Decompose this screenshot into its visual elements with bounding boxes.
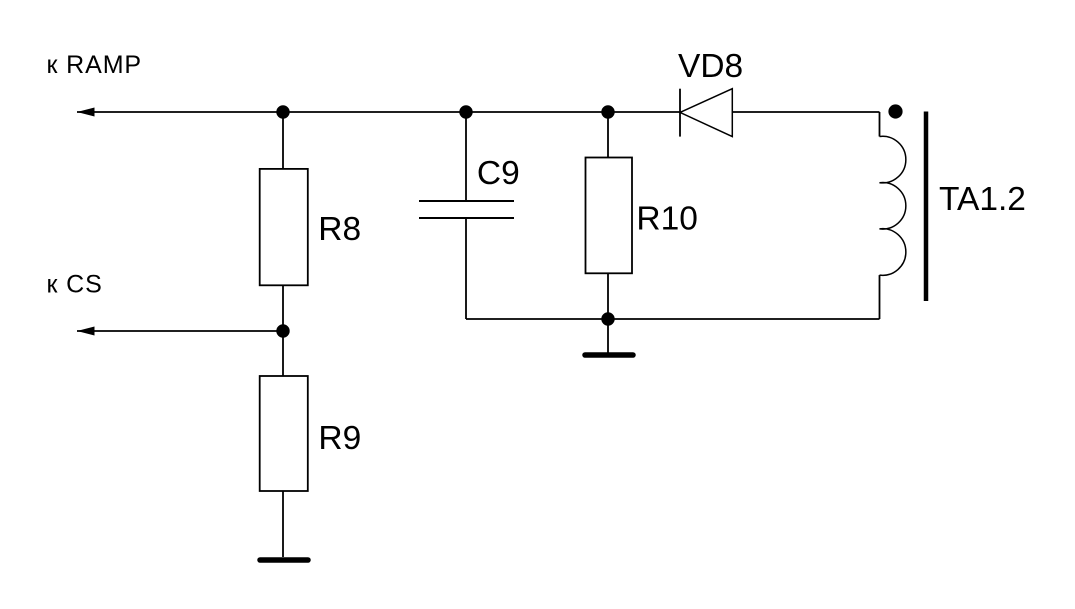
wire: R10 bottom lead <box>607 273 609 319</box>
resistor R9 <box>260 376 308 491</box>
transformer phase dot <box>888 104 902 118</box>
svg-text:R9: R9 <box>318 420 361 457</box>
wire: RAMP net horizontal, y=112 <box>77 111 880 113</box>
wire: R9 bottom lead to ground <box>282 491 284 557</box>
svg-text:VD8: VD8 <box>678 48 743 85</box>
wire: C9 top lead <box>465 112 467 201</box>
svg-text:R8: R8 <box>318 211 361 248</box>
ground under bottom net <box>585 352 633 358</box>
svg-text:TA1.2: TA1.2 <box>939 181 1026 218</box>
node junction at bottom net <box>601 312 614 325</box>
wire: CS net horizontal, y=331 <box>77 330 283 332</box>
diode VD8 triangle <box>680 89 732 137</box>
transformer TA1.2 core bar <box>924 112 929 302</box>
node junction at R8 top <box>276 105 289 118</box>
wire: bottom return net, y=319 <box>466 318 880 320</box>
node: RAMP arrow head <box>77 108 95 117</box>
wire: R10 top lead <box>607 112 609 158</box>
wire: R8 top lead <box>282 112 284 169</box>
node: CS arrow head <box>77 327 95 336</box>
wire: R8 bottom lead to CS node and R9 top lead <box>282 285 284 376</box>
wire: ground lead below bottom-net junction <box>607 319 609 353</box>
node junction at C9 top <box>459 105 472 118</box>
svg-text:к CS: к CS <box>47 270 103 298</box>
node junction at CS tap <box>276 324 289 337</box>
svg-text:C9: C9 <box>477 155 520 192</box>
wire: C9 bottom lead <box>465 218 467 319</box>
capacitor C9 plates <box>419 201 514 218</box>
resistor R10 <box>586 158 633 274</box>
transformer TA1.2 winding <box>880 136 906 275</box>
ground under R9 <box>260 557 308 563</box>
svg-text:к RAMP: к RAMP <box>47 51 143 79</box>
svg-text:R10: R10 <box>636 201 697 238</box>
diode VD8 cathode bar <box>679 89 681 137</box>
node junction at R10 top <box>601 105 614 118</box>
wire: transformer bottom stub <box>879 275 881 319</box>
wire: transformer top stub <box>879 112 881 137</box>
resistor R8 <box>260 169 308 285</box>
